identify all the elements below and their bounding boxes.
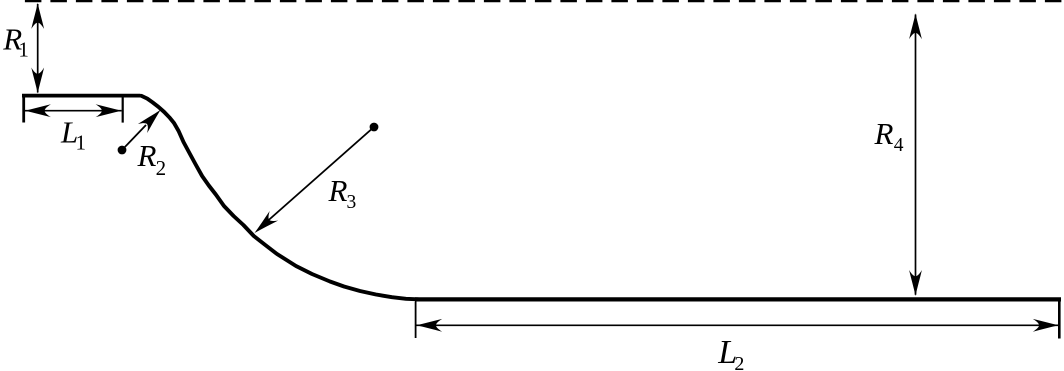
label R2	[137, 138, 167, 180]
label R4	[874, 116, 904, 156]
dimension L1 extension line right	[122, 97, 124, 123]
svg-text:R: R	[137, 138, 157, 173]
label L1	[60, 114, 86, 154]
dimension R4 vertical double arrow	[909, 13, 922, 296]
centerline (dashed axis)	[25, 0, 1062, 2]
dimension R1 vertical double arrow	[31, 3, 44, 94]
svg-text:R: R	[328, 173, 348, 208]
svg-text:1: 1	[18, 38, 29, 62]
profile top flat segment	[22, 94, 141, 98]
profile left end edge	[22, 94, 25, 123]
dimension L2 extension line left	[415, 302, 417, 339]
dimension L1 double arrow	[25, 104, 122, 117]
svg-text:3: 3	[347, 192, 357, 213]
profile bottom flat segment	[415, 297, 1061, 301]
profile S-curve (R2 fillet into R3 arc)	[142, 96, 419, 299]
leader dot R3	[370, 123, 379, 132]
svg-text:4: 4	[894, 135, 904, 156]
dimension L2 extension line right	[1058, 298, 1061, 339]
label R1	[2, 22, 29, 62]
svg-text:2: 2	[156, 156, 167, 180]
leader dot R2	[118, 146, 127, 155]
label L2	[717, 334, 744, 371]
label R3	[328, 173, 357, 213]
svg-text:2: 2	[734, 353, 744, 371]
dimension L2 double arrow	[416, 319, 1059, 332]
leader line R3 with arrowhead	[250, 127, 374, 238]
svg-text:R: R	[874, 116, 894, 151]
svg-text:1: 1	[76, 131, 87, 155]
leader line R2 with arrowhead	[122, 105, 165, 150]
